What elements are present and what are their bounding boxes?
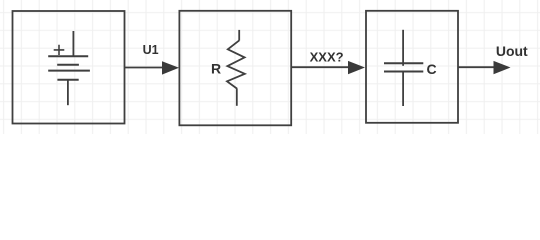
arrowhead XXX? bbox=[348, 61, 365, 74]
battery plate long 2 bbox=[48, 70, 90, 72]
battery plus sign bbox=[54, 45, 65, 55]
svg-text:C: C bbox=[426, 61, 436, 77]
wire capacitor bottom lead bbox=[402, 72, 404, 107]
wire battery top lead bbox=[72, 31, 74, 56]
svg-text:U1: U1 bbox=[143, 43, 159, 57]
battery plate short 2 bbox=[57, 79, 78, 81]
battery plate short 1 bbox=[57, 64, 79, 66]
capacitor block box bbox=[366, 11, 458, 123]
source block box bbox=[13, 11, 125, 124]
wire arrow Uout bbox=[458, 66, 495, 68]
resistor block box bbox=[179, 11, 291, 126]
capacitor plate bottom bbox=[384, 71, 423, 73]
wire battery bottom lead bbox=[67, 80, 69, 106]
arrowhead U1 bbox=[162, 61, 179, 74]
resistor R zigzag bbox=[227, 40, 245, 88]
wire resistor top lead bbox=[238, 30, 240, 41]
wire arrow U1 bbox=[125, 67, 164, 69]
arrowhead Uout bbox=[494, 61, 511, 74]
wire resistor bottom lead bbox=[236, 88, 238, 105]
svg-text:XXX?: XXX? bbox=[310, 49, 344, 64]
wire capacitor top lead bbox=[402, 30, 404, 66]
capacitor plate top bbox=[384, 62, 423, 64]
battery plate long 1 bbox=[48, 55, 88, 57]
svg-text:R: R bbox=[211, 61, 221, 77]
svg-text:Uout: Uout bbox=[496, 43, 528, 59]
wire arrow XXX? bbox=[291, 66, 349, 68]
